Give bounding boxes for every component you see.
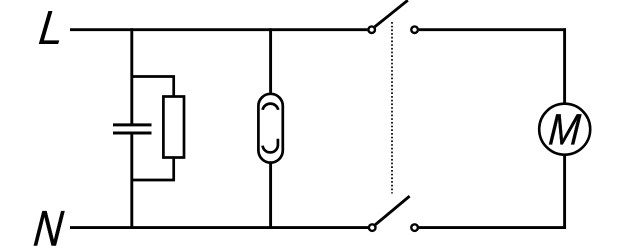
wire resistor bottom stub xyxy=(132,158,174,181)
glow lamp bottom electrode xyxy=(263,139,278,153)
switch S1a throw contact xyxy=(411,26,418,33)
wire lamp branch upper xyxy=(269,28,272,95)
resistor R1 xyxy=(163,97,184,158)
motor M1 circle xyxy=(539,104,590,155)
wire branch1 vertical above capacitor xyxy=(130,28,133,124)
wire lamp branch lower xyxy=(269,162,272,230)
switch S1a lever xyxy=(375,0,408,27)
wire right rail lower xyxy=(563,155,566,230)
wire L top rail left segment xyxy=(70,28,367,31)
wire N bottom rail left segment xyxy=(70,226,368,229)
capacitor C1 plates xyxy=(113,125,152,133)
node L label xyxy=(36,0,67,54)
wire resistor top stub xyxy=(132,77,174,98)
switch S1b lever xyxy=(375,196,409,225)
wire bottom rail right segment xyxy=(419,226,566,229)
glow lamp top electrode xyxy=(263,104,279,110)
svg-text:N: N xyxy=(32,200,66,249)
glow lamp E1 envelope xyxy=(258,94,282,163)
switch linkage dotted line xyxy=(391,22,393,194)
svg-text:M: M xyxy=(547,105,583,154)
wire branch1 vertical below capacitor xyxy=(130,133,133,229)
switch S1b pole contact xyxy=(369,224,376,231)
wire right rail upper xyxy=(563,28,566,104)
svg-text:L: L xyxy=(36,0,67,54)
motor M1 letter xyxy=(547,105,583,154)
node N label xyxy=(32,200,66,249)
switch S1a pole contact xyxy=(368,26,375,33)
wire top rail right segment xyxy=(419,28,566,31)
switch S1b throw contact xyxy=(411,224,418,231)
